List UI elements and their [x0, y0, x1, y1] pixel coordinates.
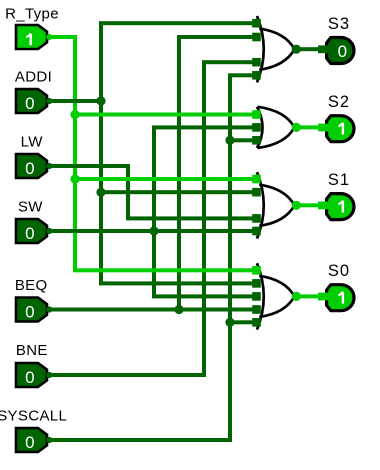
gate S3 input pad 2	[252, 33, 261, 42]
input pin LW	[16, 154, 47, 178]
svg-text:0: 0	[25, 94, 34, 113]
wire ADDI horizontal	[50, 99, 103, 103]
input pin ADDI	[16, 89, 47, 113]
gate S0 input pad 3	[252, 292, 261, 301]
svg-text:S3: S3	[328, 15, 350, 33]
wire S0 input2 (ADDI)	[99, 281, 257, 285]
svg-text:0: 0	[25, 433, 34, 452]
wire S0 input5 (SYSCALL)	[230, 320, 257, 324]
gate S0 input pad 5	[252, 318, 261, 327]
input pin SW	[16, 219, 47, 243]
wire SYSCALL vertical x=230	[228, 75, 232, 440]
or-gate S1	[257, 172, 264, 238]
gate S1 input pad 2	[252, 188, 261, 197]
wire BNE vertical x=204	[202, 62, 206, 375]
output pin S0	[327, 285, 354, 311]
wire S3 input1 (ADDI)	[99, 21, 257, 25]
svg-text:R_Type: R_Type	[5, 6, 59, 23]
wire S2 input2 (SW)	[152, 125, 257, 129]
svg-text:0: 0	[25, 159, 34, 178]
gate S1 input pad 3	[252, 214, 261, 223]
svg-text:0: 0	[25, 368, 34, 387]
wire S3 input5 (SYSCALL)	[228, 73, 257, 77]
wire S3 output	[295, 47, 320, 51]
svg-text:BNE: BNE	[16, 342, 48, 359]
input pin BEQ	[16, 298, 47, 322]
junction S2 gate output	[292, 123, 301, 132]
input pin SYSCALL	[16, 428, 47, 452]
svg-text:SW: SW	[18, 199, 43, 216]
wire S3 input4 (BNE)	[202, 60, 257, 64]
junction S1 gate output	[292, 201, 301, 210]
gate S3 input pad 4	[252, 71, 261, 80]
wire S1 input2 (ADDI)	[101, 190, 257, 194]
gate S3 input pad 1	[252, 19, 261, 28]
svg-text:SYSCALL: SYSCALL	[0, 407, 67, 424]
svg-text:0: 0	[25, 224, 34, 243]
wire S0 output	[295, 294, 320, 298]
or-gate S3	[257, 16, 264, 82]
wire LW vertical x=128	[126, 166, 130, 218]
wire R_Type horizontal	[50, 35, 77, 39]
or-gate S0	[257, 263, 264, 329]
junction S3 gate output	[292, 45, 301, 54]
svg-text:0: 0	[338, 42, 347, 61]
wire BEQ horizontal / S0 input4	[50, 308, 257, 312]
wire S0 input1 (R_Type)	[73, 268, 257, 272]
junction ADDI at (101,192)	[96, 188, 105, 197]
wire ADDI vertical x=101	[99, 23, 103, 283]
wire SYSCALL horizontal	[50, 438, 232, 442]
junction SW at (154,231)	[149, 226, 158, 235]
svg-text:LW: LW	[21, 134, 44, 151]
wire S2 output	[295, 125, 320, 129]
input pin R_Type	[16, 25, 47, 49]
gate S0 input pad 1	[252, 266, 261, 275]
junction R_Type at (75,179)	[70, 174, 79, 183]
wire SW vertical x=154	[152, 127, 156, 296]
input pin BNE	[16, 363, 47, 387]
gate S2 input pad 3	[252, 136, 261, 145]
gate S2 input pad 2	[252, 123, 261, 132]
svg-text:S0: S0	[328, 262, 350, 280]
output pin S1	[327, 194, 354, 220]
or-gate S2	[257, 107, 263, 148]
gate S3 input pad 3	[252, 58, 261, 67]
wire LW horizontal	[50, 164, 130, 168]
wire S1 input1 (R_Type)	[75, 177, 257, 181]
gate S1 input pad 4	[252, 227, 261, 236]
junction R_Type at (75,114.5)	[70, 110, 79, 119]
junction SYSCALL at (230,140)	[225, 136, 234, 145]
gate S1 input pad 1	[252, 175, 261, 184]
output pin S3	[327, 38, 354, 64]
wire S1 input4 (LW)	[126, 216, 257, 220]
junction ADDI at (101,101)	[96, 96, 105, 105]
junction S0 gate output	[292, 292, 301, 301]
wire BEQ vertical x=179	[177, 37, 181, 310]
svg-text:S1: S1	[328, 171, 350, 189]
wire S1 output	[295, 203, 320, 207]
svg-text:0: 0	[25, 302, 34, 321]
junction BEQ at (179,309.5)	[174, 305, 183, 314]
wire S3 input2 (BEQ)	[177, 35, 257, 39]
wire BNE horizontal	[50, 373, 206, 377]
junction SYSCALL at (230,322)	[225, 318, 234, 327]
wire S2 input1 (R_Type)	[75, 113, 257, 117]
gate S2 input pad 1	[252, 110, 261, 119]
wire SW horizontal / S1 input5	[50, 229, 257, 233]
svg-text:ADDI: ADDI	[15, 69, 52, 86]
svg-text:S2: S2	[328, 93, 350, 111]
wire S2 input3 (SYSCALL)	[230, 138, 257, 142]
gate S0 input pad 4	[252, 305, 261, 314]
output pin S2	[327, 116, 354, 142]
gate S0 input pad 2	[252, 279, 261, 288]
wire S0 input3 (SW)	[152, 294, 257, 298]
wire R_Type vertical x=75	[73, 37, 77, 270]
svg-text:BEQ: BEQ	[15, 277, 48, 294]
